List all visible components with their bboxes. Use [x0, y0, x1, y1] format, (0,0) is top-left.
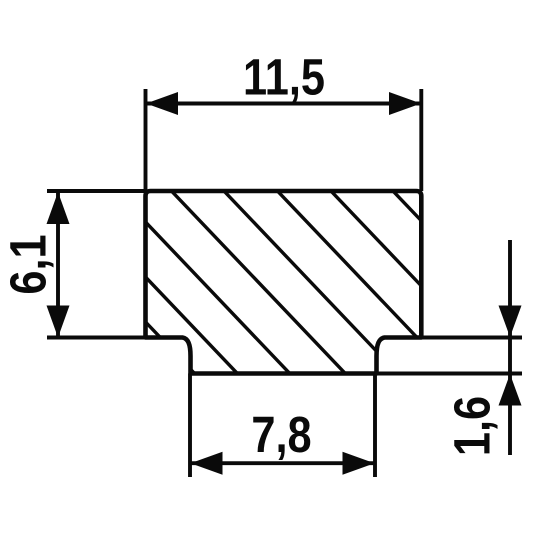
dimension line 1,6 [508, 240, 512, 455]
arrowhead left 7,8 [191, 452, 223, 475]
extension line top of dimension 6,1 [47, 189, 146, 193]
hatch lines [8, 178, 533, 390]
arrowhead right 7,8 [343, 452, 375, 475]
svg-text:11,5: 11,5 [243, 49, 325, 106]
extension line top of dimension 1,6 [420, 336, 522, 340]
extension line left of dimension 7,8 [188, 374, 192, 478]
arrowhead down 6,1 [47, 306, 70, 338]
arrowhead up 6,1 [47, 192, 70, 224]
dimension line 11,5 [146, 102, 421, 106]
extension line left of dimension 11,5 [144, 89, 148, 191]
profile outline [146, 191, 422, 374]
dimension line 7,8 [191, 461, 375, 465]
extension line bottom of dimension 1,6 [377, 372, 522, 376]
svg-text:1,6: 1,6 [444, 396, 501, 456]
svg-text:7,8: 7,8 [251, 407, 311, 464]
svg-text:6,1: 6,1 [0, 234, 57, 294]
extension line right of dimension 11,5 [419, 89, 423, 191]
arrowhead left 11,5 [146, 92, 178, 115]
arrowhead right 11,5 [389, 92, 421, 115]
dimension line 6,1 [56, 192, 60, 337]
arrowhead down 1,6 [499, 306, 522, 338]
arrowhead up 1,6 [499, 374, 522, 406]
extension line bottom of dimension 6,1 [47, 336, 146, 340]
extension line right of dimension 7,8 [373, 374, 377, 478]
